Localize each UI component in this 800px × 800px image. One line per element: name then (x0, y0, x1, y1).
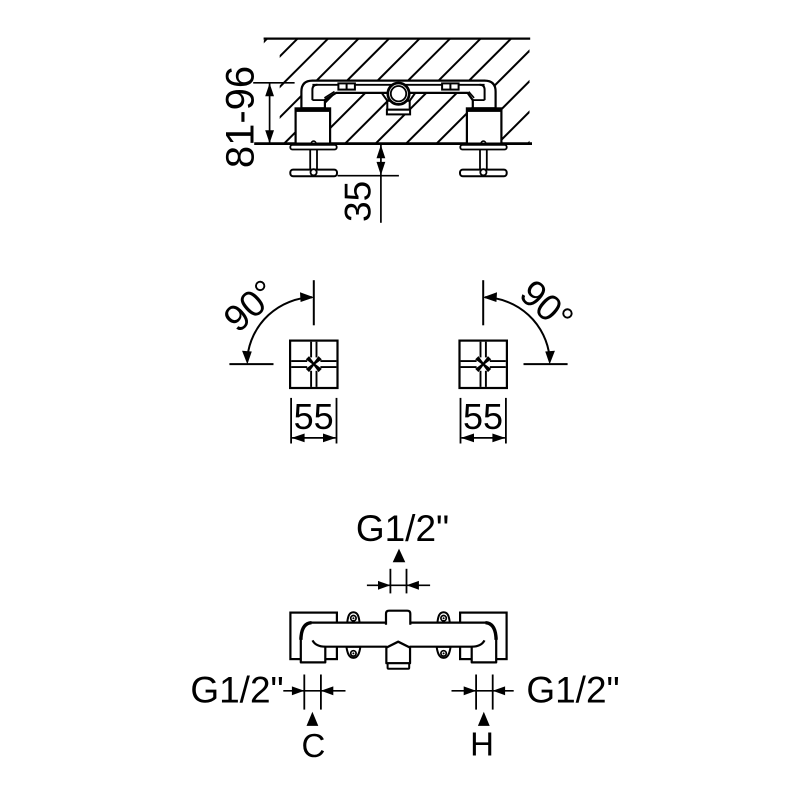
bar inner top line (312, 84, 484, 86)
front left bottom tab screw (351, 651, 356, 656)
bar left inner elbow edge (312, 85, 317, 100)
right rotation axis horizontal line (524, 363, 568, 365)
right valve screw bump (481, 141, 486, 143)
cold pointer triangle (307, 712, 319, 726)
right escutcheon plate (460, 145, 506, 150)
left rotation axis horizontal line (229, 363, 273, 365)
front view top dim line (367, 584, 430, 586)
left underside step second line (324, 92, 334, 98)
left dim 55 arrow line (292, 437, 335, 439)
center outlet bracket band (387, 110, 410, 115)
left collar top line (312, 99, 325, 101)
svg-text:G1/2": G1/2" (190, 670, 283, 711)
right 90-degree arc (485, 297, 550, 357)
dim 35 arrow up (377, 145, 386, 158)
svg-text:H: H (470, 726, 494, 763)
left valve stem (309, 150, 311, 170)
right valve block (467, 108, 502, 143)
front left elbow outer arc (301, 623, 312, 640)
dim 81-96 top extension line (253, 82, 294, 84)
front left body block (290, 613, 337, 660)
dim left ticks (303, 675, 305, 710)
svg-text:35: 35 (337, 181, 378, 222)
wall bottom surface line (254, 142, 532, 145)
right valve stem (479, 150, 481, 170)
wall hatching (160, 39, 633, 146)
bar right inner elbow edge (480, 85, 485, 100)
front left top tab screw (351, 616, 356, 621)
dim left line (283, 690, 345, 692)
left dim 55 extension lines (290, 398, 292, 444)
dim 35 extension line (338, 175, 399, 177)
left 90-degree arc (247, 297, 312, 357)
right handle square (460, 341, 507, 388)
right arc arrow down (545, 351, 555, 365)
right valve block top band (467, 108, 502, 112)
left valve block top band (296, 108, 331, 112)
right dim 55 arrow line (462, 437, 505, 439)
left handle square (290, 341, 337, 388)
front view top pointer triangle (393, 549, 406, 563)
left handle cross vertical slot (310, 342, 312, 358)
svg-text:81-96: 81-96 (219, 66, 263, 168)
front left elbow fillet (313, 640, 326, 646)
dim right line (452, 690, 514, 692)
right handle cross center X (475, 356, 484, 365)
left arc arrow right (300, 292, 314, 302)
front mixer tube body (301, 623, 496, 664)
left arc arrow down (242, 351, 252, 365)
dim 81-96 arrow down (265, 130, 274, 143)
right dim 55 arrowheads (461, 434, 474, 443)
right dim 55 extension lines (460, 398, 462, 444)
dim left arrows (292, 686, 304, 695)
center outlet ring outer (388, 83, 409, 104)
right underside step second line (469, 92, 474, 98)
front right top mounting tab (437, 612, 449, 623)
left escutcheon plate (290, 145, 336, 150)
hot pointer triangle (478, 712, 490, 726)
dim 35 line (380, 144, 382, 223)
dim 81-96 line (269, 83, 271, 144)
center outlet bracket shoulders (382, 93, 388, 101)
left valve screw bump (311, 141, 316, 143)
dim 35 arrow down (377, 162, 386, 175)
svg-text:G1/2": G1/2" (356, 508, 449, 549)
dim right ticks (475, 675, 477, 710)
front view top dim arrows (378, 581, 390, 590)
front right elbow fillet (472, 640, 485, 646)
right collar top line (473, 99, 485, 101)
svg-text:G1/2": G1/2" (526, 670, 619, 711)
front left bottom mounting tab (346, 647, 360, 658)
left handle cross center X (306, 356, 315, 365)
left handle screw (311, 169, 317, 175)
svg-text:55: 55 (463, 396, 503, 437)
left handle bar (290, 170, 337, 177)
front center top port (386, 611, 410, 625)
front right bottom mounting tab (437, 647, 451, 658)
dim right arrows (464, 686, 476, 695)
center outlet bracket body (387, 101, 409, 110)
front left top mounting tab (347, 612, 359, 623)
right inlet window detail (442, 83, 459, 89)
center outlet ring inner (391, 86, 406, 101)
mixer bar body (white over hatch) (301, 81, 495, 109)
wall top surface line (264, 37, 531, 39)
right rotation axis vertical line (482, 280, 484, 325)
right handle bar (460, 170, 507, 177)
front right elbow outer arc (486, 623, 497, 640)
front right body block (460, 613, 507, 660)
svg-text:C: C (301, 727, 325, 764)
left rotation axis vertical line (313, 280, 315, 325)
svg-text:55: 55 (294, 396, 334, 437)
front spout end cap (388, 663, 410, 669)
left valve block (296, 108, 331, 143)
dim 81-96 arrow up (265, 83, 274, 96)
left inlet window detail (338, 83, 355, 89)
left dim 55 arrowheads (292, 434, 305, 443)
left handle cross horizontal slot (291, 360, 307, 362)
front spout gable (386, 642, 410, 648)
front right top tab screw (441, 616, 446, 621)
right handle screw (480, 169, 486, 175)
front right bottom tab screw (441, 651, 446, 656)
front view top dim ticks (389, 569, 391, 594)
right arc arrow left (483, 292, 497, 302)
right handle cross horizontal slot (461, 360, 477, 362)
right handle cross vertical slot (480, 342, 482, 358)
